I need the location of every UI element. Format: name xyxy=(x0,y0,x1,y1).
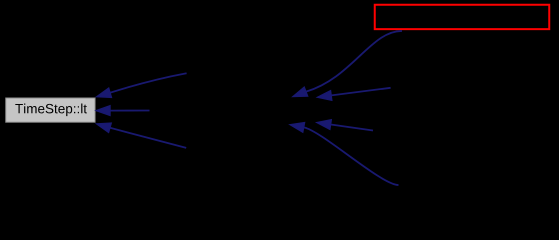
wire edge L3 into TimeStep::lt (lower) xyxy=(96,123,186,148)
wire edge R5 (curve from bottom right) xyxy=(290,122,399,185)
node (red truncated box, top right) xyxy=(375,5,550,29)
node TimeStep::lt (grey focus node) xyxy=(6,98,95,122)
wire edge L1 into TimeStep::lt (upper) xyxy=(96,73,186,97)
wire edge R1 from red box down to hidden middle node xyxy=(293,31,403,97)
wire edge R2 (straight, upper right) xyxy=(317,88,391,101)
wire edge L2 into TimeStep::lt (middle) xyxy=(96,106,150,116)
wire edge R4 (straight, lower right) xyxy=(316,120,373,131)
